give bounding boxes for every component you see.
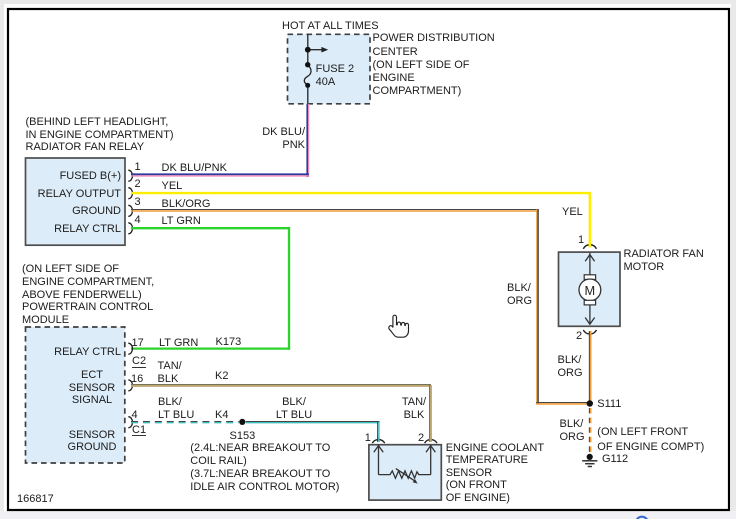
wire DK BLU/PNK vertical from fuse to relay pin 1 [306,104,308,177]
mouse cursor (pointing hand) [389,315,409,337]
PCM pin number 17 [132,337,144,350]
wire BLK/ORG horizontal relay pin3 [131,209,539,211]
ground label G112 [602,453,628,466]
wire label BLK/ORG [162,198,211,211]
splice S111 [587,400,593,406]
outer window chrome strips [0,0,736,4]
wire label YEL [162,180,183,193]
battery feed arrow [308,49,322,51]
wire label TAN/BLK at pin16 [158,360,182,386]
relay pin name RELAY OUTPUT [0,188,121,201]
relay pin 1 connector arc [128,170,132,181]
wire BLK/ORG vertical fan motor pin2 to S111 [588,331,590,404]
wire LT GRN horizontal relay pin4 [131,227,290,229]
wire label BLK/ORG relay drop [507,282,532,308]
wire label LT GRN [162,215,201,228]
motor pin number 2 [576,330,582,343]
wire TAN/BLK horizontal PCM pin16 to ECT pin 2 [131,384,431,386]
wire DK BLU/PNK horizontal relay pin1 to fuse drop [131,173,309,175]
label RADIATOR FAN MOTOR [624,248,704,273]
diagram number 166817 [17,493,54,506]
wire label BLK/LT BLU mid-run [262,396,326,422]
relay pin name GROUND [0,205,121,218]
motor armature circle [579,279,601,301]
motor M letter [585,284,596,297]
label S153 notes [190,442,339,494]
wire label TAN/BLK mid-run [382,396,446,422]
junction dot top [305,47,311,53]
label PCM header [22,263,154,328]
relay pin number 1 [135,161,141,174]
fuse F2 element (S-curve) [304,65,311,85]
engine coolant temperature sensor box [369,445,441,500]
wire LT GRN horizontal into PCM pin 17 [131,347,290,349]
radiator fan relay box [26,158,126,245]
label DK BLU/PNK vertical wire [245,126,305,152]
circuit number K2 [215,370,228,383]
PCM pin number 4 [132,409,138,422]
wire tips over connector arcs [589,242,591,247]
splice label S111 [597,398,621,411]
motor internal arrow up [585,255,594,262]
ECT internal lead pin2 with up arrow [430,445,432,474]
motor internal arrow down [585,318,594,325]
motor brush block top [584,275,595,280]
relay pin number 4 [135,214,141,227]
label ground location [597,425,704,454]
PCM connector C2 [132,356,146,367]
label HOT AT ALL TIMES [282,20,379,33]
ECT internal lead pin1 with up arrow [378,445,380,474]
wire YEL horizontal relay pin2 to fan motor drop [131,192,591,194]
ECT pin number 2 [418,432,424,445]
wire BLK/LT BLU solid segment S153 to ECT pin 1 [246,421,380,423]
splice label S153 [230,430,256,443]
PCM pin 16 connector arc [128,380,132,391]
relay pin number 2 [135,178,141,191]
powertrain control module box (dashed) [26,327,125,463]
wire label YEL near motor [562,206,583,219]
label power distribution center [373,32,495,98]
wire LT GRN vertical drop [288,227,290,350]
fuse terminal dot lower [305,83,310,88]
wire label DK BLU/PNK [162,162,227,175]
fuse terminal dot upper [305,62,310,67]
power distribution center box (dashed, with fuse) [288,34,371,104]
ECT pin number 1 [365,432,371,445]
motor brush block bottom [584,300,595,305]
PCM pin 4 connector arc [128,417,132,428]
wire TAN/BLK vertical drop to ECT pin 2 [429,385,431,442]
PCM pin 17 connector arc [128,343,132,354]
wire BLK/ORG vertical drop toward S111 [536,209,538,404]
relay pin 4 connector arc [128,223,132,234]
fan motor pin 1 connector arc [583,245,596,249]
splice S153 [239,419,245,425]
ECT thermistor arrow [396,469,415,481]
relay pin name FUSED B(+) [0,170,121,183]
relay pin 2 connector arc [128,188,132,199]
PCM pin name SENSOR GROUND [42,429,142,454]
wire label BLK/ORG ground run [560,418,585,443]
PCM pin number 16 [131,373,143,386]
label ECT sensor [446,442,544,504]
relay pin 3 connector arc [128,205,132,216]
relay pin number 3 [135,196,141,209]
wire label LT GRN K173 row [159,337,198,350]
motor internal lead line [589,253,591,324]
wire BLK/LT BLU vertical drop to ECT pin 1 [377,422,379,442]
ground G112 symbol [587,454,593,460]
wire BLK/LT BLU dashed segment PCM pin4 to S153 [131,421,239,423]
PCM connector C1 [132,425,146,436]
PCM pin name RELAY CTRL [0,346,121,359]
wire BLK/ORG horizontal into S111 [536,402,588,404]
circuit number K173 [216,336,242,349]
radiator fan motor box [559,252,621,326]
motor pin number 1 [578,234,584,247]
fan motor pin 2 connector arc [583,330,596,334]
PCM pin name ECT SENSOR SIGNAL [42,369,142,407]
ECT thermistor element [379,471,431,478]
wire YEL vertical down to fan motor pin 1 [589,192,591,247]
fuse feed vertical line inside PDC [307,35,309,65]
ECT pin 2 connector arc [425,440,437,444]
relay pin name RELAY CTRL [0,223,121,236]
ECT pin 1 connector arc [372,440,384,444]
label relay header [26,116,174,154]
circuit number K4 [215,409,228,422]
wire BLK/ORG dashed to ground [588,408,590,453]
wire label BLK/LT BLU at pin4 [158,396,194,422]
label FUSE 2 40A [316,63,355,89]
wire label BLK/ORG motor drop [558,354,583,380]
bottom toolbar partial blue icon [636,517,648,519]
